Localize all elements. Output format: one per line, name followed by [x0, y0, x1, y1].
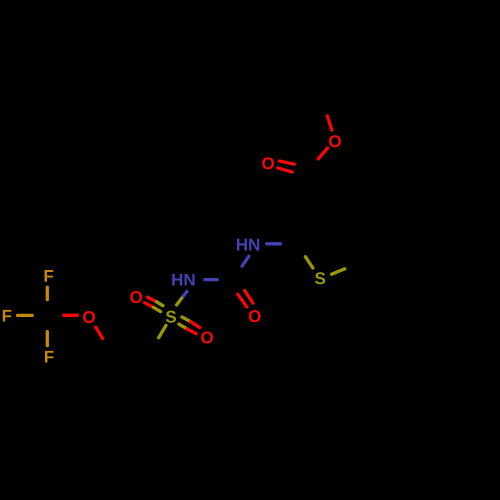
bond N2-S2 sulfonyl (N half) — [182, 292, 187, 299]
atom O6 ether oxygen — [83, 311, 95, 323]
bond O6-CF3 carbon (O half) — [64, 314, 78, 317]
bond N2-S2 sulfonyl (S half) — [177, 298, 182, 305]
bond C=O urea double line 2 (O half) — [238, 294, 247, 307]
atom O3 urea carbonyl oxygen — [249, 310, 261, 322]
bond S1-C2 thiophene (S half) — [305, 257, 313, 268]
bond S2-C1' phenyl (S half) — [159, 325, 166, 337]
bond F1-C (F half) — [46, 287, 49, 299]
atom S1 thiophene sulfur — [315, 272, 325, 284]
bond S2=O5 line 2 (S half) — [179, 324, 187, 329]
bond F3-C (F half) — [46, 332, 49, 346]
bond N1-C urea carbonyl (N half) — [242, 256, 249, 266]
atom S2 sulfonyl sulfur — [166, 311, 176, 323]
atom F2 fluorine left — [3, 310, 12, 322]
bond S1-C7a thiophene (S half) — [332, 269, 345, 274]
bond N1-C2 thiophene (N half) — [267, 242, 281, 245]
bond O6-C2' phenyl (O half) — [96, 327, 103, 338]
atom O5 sulfonyl oxygen lower — [201, 331, 213, 343]
bond O2-C carbonyl (O half) — [318, 148, 327, 159]
bond S2=O5 line 1 (O half) — [191, 322, 200, 328]
atom N2 sulfonamide NH label — [172, 274, 194, 286]
atom F3 fluorine bottom — [45, 351, 54, 363]
bond C=O urea double line 1 (O half) — [245, 291, 253, 304]
atom O2 ester oxygen — [329, 135, 341, 147]
bond S2=O4 line 1 (S half) — [157, 302, 163, 306]
bond C=O ester double line 2 (O half) — [278, 168, 293, 172]
bond S2=O5 line 2 (O half) — [187, 329, 196, 334]
bond F2-C (F half) — [18, 314, 33, 317]
bond S2=O4 line 2 (S half) — [154, 307, 161, 311]
atom N1 amide NH label — [237, 239, 259, 251]
bond S2=O4 line 1 (O half) — [147, 297, 156, 302]
bond N2-C urea carbonyl (N half) — [205, 278, 218, 281]
atom O4 sulfonyl oxygen upper — [130, 291, 142, 303]
bond C=O ester double line 1 (O half) — [280, 161, 295, 164]
atom O1 ester carbonyl oxygen — [262, 157, 274, 169]
bond O2-CH3 methyl (O half) — [327, 116, 331, 130]
atom F1 fluorine top — [45, 270, 54, 282]
bond S2=O4 line 2 (O half) — [145, 303, 154, 308]
bond S2=O5 line 1 (S half) — [182, 317, 191, 322]
